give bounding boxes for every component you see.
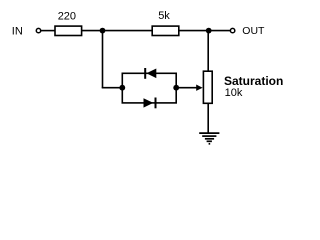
wire R1 to R2 — [82, 30, 153, 32]
diode D2 (lower, cathode right) — [144, 98, 156, 109]
svg-text:OUT: OUT — [242, 25, 265, 37]
diode D1 (upper, cathode left) — [145, 68, 156, 79]
junction node B — [206, 28, 212, 34]
terminal IN (open circle) — [36, 28, 40, 32]
svg-text:Saturation: Saturation — [224, 74, 283, 88]
wiper arrowhead — [196, 85, 202, 91]
svg-text:220: 220 — [58, 10, 76, 22]
wire potentiometer bottom to ground — [207, 103, 209, 133]
resistor R2 5k — [152, 26, 179, 35]
ground symbol — [199, 133, 219, 144]
junction node A — [100, 28, 106, 34]
wire node D to potentiometer wiper — [176, 87, 198, 89]
wire node B down to potentiometer top — [207, 31, 209, 72]
svg-text:10k: 10k — [225, 87, 243, 99]
svg-text:IN: IN — [12, 25, 23, 37]
junction node D (diode pair right) — [173, 85, 179, 91]
wire loop of diode pair — [122, 73, 176, 103]
svg-text:5k: 5k — [158, 10, 170, 22]
wire R2 to OUT terminal — [179, 30, 231, 32]
wire node A down — [102, 31, 104, 88]
wire to diode pair left node — [102, 87, 123, 89]
resistor R1 220 — [55, 26, 82, 35]
wire IN terminal to R1 — [41, 30, 55, 32]
terminal OUT (open circle) — [230, 28, 234, 32]
potentiometer R3 10k body — [203, 71, 212, 103]
junction node C (diode pair left) — [119, 85, 125, 91]
